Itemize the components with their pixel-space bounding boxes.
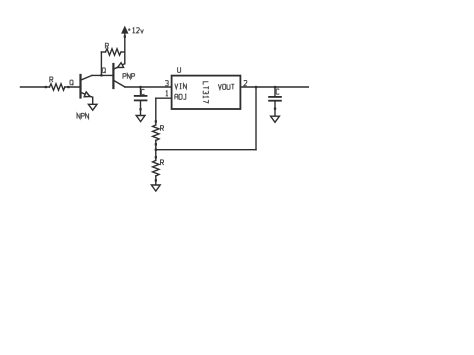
label U1 designator U (178, 67, 181, 72)
wire Q1 collector to Q2 base (92, 74, 113, 76)
ground (Q1 emitter) (88, 104, 97, 110)
label Q1 type NPN (77, 113, 89, 118)
label R4 value R (161, 160, 164, 165)
label pin 3 (165, 81, 168, 86)
regulator U1 LT317 box (172, 76, 241, 109)
transistor Q2 PNP (113, 63, 125, 88)
transistor Q1 NPN (81, 75, 93, 104)
resistor R2 (101, 49, 124, 55)
node VOUT junction (255, 86, 257, 88)
label R1 value R (50, 77, 53, 82)
ground (R4) (151, 185, 160, 191)
node Q2 base junction (100, 74, 102, 76)
node R3/R4 junction (155, 149, 157, 151)
resistor R4 (153, 150, 159, 185)
ground (C1) (136, 116, 145, 122)
wire feedback horizontal (156, 149, 256, 151)
label +12v net (128, 28, 143, 33)
label ADJ pin name (175, 94, 187, 99)
wire +12v rail (124, 33, 126, 64)
node C2 top junction (274, 86, 276, 88)
wire input left (21, 86, 50, 88)
capacitor C2 (269, 87, 281, 116)
ground (C2) (271, 116, 280, 122)
resistor R3 (153, 120, 159, 149)
label Q2 designator Q (102, 68, 105, 73)
label R2 value R (105, 43, 108, 48)
wire U1 VOUT to output (240, 86, 308, 88)
label C1 value C (141, 89, 144, 94)
label Q1 designator Q (70, 80, 73, 85)
capacitor C1 (135, 87, 147, 116)
resistor R1 (45, 84, 70, 90)
label U1 part number LT317 (203, 82, 208, 103)
label pin 1 (166, 91, 168, 96)
label C2 value C (276, 89, 279, 94)
label VIN pin name (175, 84, 187, 89)
wire R1 to Q1 base (65, 86, 81, 88)
label R3 value R (161, 126, 164, 131)
label Q2 type PNP (123, 74, 135, 79)
wire U1 ADJ pin (156, 97, 172, 99)
wire R2 left leg (100, 52, 102, 75)
power +12v arrow (122, 27, 127, 37)
label pin 2 (244, 81, 247, 86)
label VOUT pin name (218, 84, 234, 89)
wire Q2 collector to U1 VIN (125, 86, 172, 88)
wire feedback vertical (255, 87, 257, 150)
node C1 top junction (139, 86, 141, 88)
wire ADJ down to R3 (155, 98, 157, 125)
